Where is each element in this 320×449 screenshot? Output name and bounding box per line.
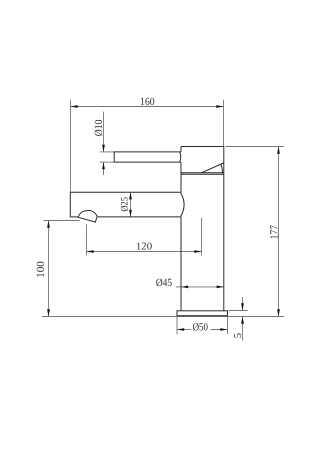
svg-text:5: 5	[233, 333, 244, 338]
svg-text:Ø10: Ø10	[93, 119, 105, 136]
svg-text:Ø50: Ø50	[193, 322, 209, 334]
svg-text:177: 177	[268, 225, 280, 240]
svg-text:Ø45: Ø45	[156, 277, 173, 289]
svg-text:Ø25: Ø25	[119, 197, 130, 212]
svg-text:160: 160	[140, 96, 155, 108]
svg-text:100: 100	[35, 261, 47, 278]
svg-text:120: 120	[136, 242, 152, 253]
